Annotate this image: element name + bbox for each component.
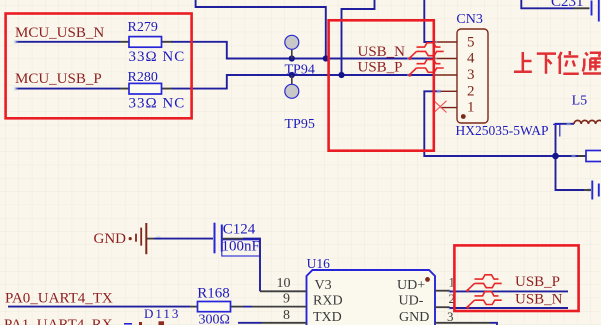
svg-text:USB_P: USB_P [515,274,560,290]
pin 3 [434,74,457,76]
annotation rectangle 3 (bottom right) [454,245,578,311]
pin 2 [441,90,457,92]
svg-text:3: 3 [447,309,454,324]
annotation rectangle 2 (USB_N/USB_P middle) [329,20,434,150]
svg-text:UD-: UD- [399,294,424,309]
pale off-grid markers [14,40,591,310]
svg-text:USB_P: USB_P [358,59,403,75]
pin 10 V3 [260,290,307,292]
svg-text:RXD: RXD [313,294,343,309]
svg-text:R280: R280 [128,70,158,85]
pin 3 GND [435,322,490,324]
junction dot bottom rail [552,153,559,160]
svg-text:GND: GND [94,231,127,247]
svg-text:8: 8 [283,308,290,323]
pin 9 RXD [231,306,244,308]
svg-text:C231: C231 [551,0,584,10]
Chinese annotation 上下位通(讯) [514,51,601,74]
junction dot USB_N / top branch [323,55,329,61]
pin 1 marker dot U16 [425,277,430,282]
svg-text:HX25035-5WAP: HX25035-5WAP [456,123,549,138]
diff pair directive on USB_P (bottom) [466,275,501,292]
capacitor C231 (top right, clipped) [521,0,599,22]
svg-text:D113: D113 [144,306,180,321]
svg-text:TP95: TP95 [285,117,315,132]
svg-text:MCU_USB_P: MCU_USB_P [15,71,102,87]
junction dot USB_N / TP94 [289,55,295,61]
diff pair directive on USB_N wire [408,43,443,60]
svg-text:U16: U16 [307,256,330,271]
svg-text:USB_N: USB_N [515,292,563,308]
pin 1 UD+ [435,290,450,292]
resistor R280 [120,70,185,112]
svg-text:10: 10 [277,276,291,291]
svg-text:V3: V3 [315,278,332,293]
svg-text:GND: GND [399,310,429,325]
wire: C124 to U16 pin 10 [223,238,243,240]
char 通 (clipped) [583,53,601,74]
svg-text:UD+: UD+ [397,278,425,293]
diff pair directive on USB_P wire [408,59,443,76]
svg-text:100nF: 100nF [222,239,260,255]
test point TP94 [285,35,315,77]
resistor at right edge (clipped) [578,151,601,162]
svg-text:L5: L5 [572,94,588,109]
wire: GND to C124 [147,238,154,240]
diode D113 symbol (clipped) [124,323,132,325]
svg-text:R279: R279 [128,20,158,35]
inductor L5 [572,94,601,124]
svg-text:5: 5 [467,34,475,50]
wire: CN3 pin 2 to bottom rail [424,91,601,156]
svg-text:1: 1 [467,100,475,116]
wire: USB_N branch up to top edge [196,0,326,59]
svg-text:TXD: TXD [313,310,342,325]
svg-text:USB_N: USB_N [358,44,406,60]
connector CN3 [434,12,560,138]
svg-text:33Ω NC: 33Ω NC [129,49,186,65]
wire: R280 to CN3 pin 3 (USB_P), bends up at x=226.8 [171,75,434,89]
junction dot USB_P / TP95 [289,72,295,78]
wire: top edge down to CN3 pin 5 [424,0,436,42]
capacitor C124 [215,222,261,256]
resistor R168 [190,285,231,325]
svg-text:C124: C124 [223,222,256,238]
wire: MCU_USB_N net from left to R279 [16,41,121,43]
pin 1 [441,107,458,109]
no-ERC marker at CN3 pin 1 [434,101,447,113]
char 位 [559,51,579,74]
svg-text:TP94: TP94 [285,62,315,77]
svg-text:3: 3 [467,67,475,83]
diff pair directive on USB_N (bottom) [466,292,501,309]
IC U16 [231,256,498,325]
wire: UD- to USB_N net [450,307,569,309]
svg-text:2: 2 [467,83,475,99]
pin 1 marker dot [461,114,466,119]
svg-text:PA1_UART4_RX: PA1_UART4_RX [4,317,113,325]
svg-text:R168: R168 [197,285,230,301]
wire: rail branch down to capacitor right-bottom [556,156,585,190]
svg-text:4: 4 [467,51,475,67]
wire: USB_P branch up to top edge [342,0,375,75]
power port GND [94,223,147,254]
wire: R279 to CN3 pin 4 (USB_N), bends down at x=226.8 [171,42,434,59]
svg-text:PA0_UART4_TX: PA0_UART4_TX [5,291,113,307]
test point TP95 [285,75,315,132]
resistor R279 [120,20,185,65]
pin 2 UD- [435,306,450,308]
pin 8 TXD [238,322,262,324]
junction dot USB_P / top branch [338,72,344,78]
wire: PA0_UART4_TX to R168 [8,306,190,308]
char 下 [537,54,556,74]
capacitor at bottom right (clipped) [584,181,599,200]
svg-text:9: 9 [283,292,290,307]
wire: rail branch up to L5 [556,124,575,156]
svg-text:300Ω: 300Ω [199,313,230,325]
pin 5 [435,41,457,43]
svg-text:33Ω NC: 33Ω NC [129,96,186,112]
annotation rectangle 1 (MCU side) [6,14,192,119]
wire: MCU_USB_P net from left to R280 [16,88,121,90]
wire: UD+ to USB_P net [450,290,569,292]
char 上 [514,52,532,72]
svg-text:MCU_USB_N: MCU_USB_N [15,25,104,41]
pin 4 [434,58,457,60]
svg-text:CN3: CN3 [456,12,482,27]
